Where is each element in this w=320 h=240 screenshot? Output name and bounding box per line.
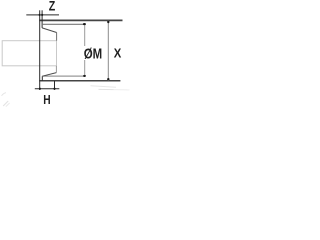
faint watermark smudge line c (bottom right): [114, 89, 130, 91]
Z dimension line right tail: [42, 14, 59, 16]
background: [0, 0, 140, 110]
inner rim line bottom (ØM extension): [42, 75, 84, 77]
H dim dot left: [39, 88, 41, 90]
H dim dot right: [53, 88, 55, 90]
X dimension line (vertical): [107, 21, 109, 81]
web right face top segment: [56, 33, 58, 41]
ØM dimension line lower segment: [84, 60, 86, 76]
ØM dimension line upper segment: [84, 24, 86, 46]
bottom extension line (flange rim bottom edge, extended right): [39, 80, 120, 82]
inner rim line top (ØM extension): [42, 23, 85, 25]
watermark stroke c (faint, bottom-left): [6, 103, 10, 107]
svg-text:Z: Z: [49, 0, 56, 14]
faint watermark smudge line b (bottom right): [99, 88, 114, 90]
ØM dim dot top: [83, 23, 86, 25]
cone face bottom (diagonal): [42, 73, 56, 77]
svg-text:ØM: ØM: [84, 45, 102, 62]
svg-text:H: H: [43, 94, 50, 107]
web right face bottom segment: [55, 66, 57, 73]
watermark stroke a (faint, bottom-left): [2, 93, 7, 96]
H right extension line: [54, 81, 56, 90]
rim right face top (vertical, extended up for Z dim): [41, 10, 43, 28]
Z dim dot left: [39, 14, 41, 16]
Z dimension line left tail: [26, 14, 39, 16]
rim right face bottom: [41, 76, 43, 81]
cone face top (diagonal): [42, 28, 57, 33]
top extension line (flange rim top edge, extended right for X dim): [39, 19, 122, 21]
svg-text:X: X: [114, 46, 122, 61]
flange left face (vertical, with extensions for Z and H dims): [39, 10, 41, 90]
watermark stroke b (faint, bottom-left): [3, 101, 8, 106]
X dim dot top: [107, 21, 109, 23]
H dimension line: [35, 88, 60, 90]
ØM dim dot bottom: [83, 75, 86, 77]
hub cylinder outline (light gray rectangle): [2, 41, 56, 66]
Z dim dot right: [41, 14, 43, 16]
faint watermark smudge line a (bottom right): [91, 86, 117, 88]
X dim dot bottom: [107, 78, 109, 80]
